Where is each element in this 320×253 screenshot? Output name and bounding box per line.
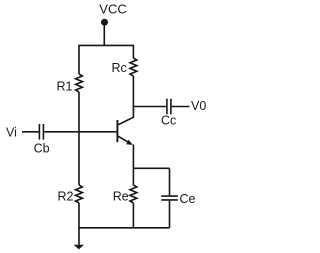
svg-text:VCC: VCC	[99, 2, 126, 17]
resistor Rc	[130, 58, 137, 76]
wire collector junction to Cc	[133, 106, 166, 108]
wire Cb to base	[44, 131, 116, 133]
wire top rail with corner drops	[79, 45, 133, 74]
capacitor Cc	[166, 99, 168, 115]
wire left bottom + bottom rail	[79, 203, 170, 228]
wire emitter junction to Re	[132, 168, 134, 185]
wire emitter down to junction	[132, 145, 134, 169]
svg-text:Vi: Vi	[6, 126, 17, 140]
svg-text:Cb: Cb	[34, 141, 50, 155]
wire Rc to collector junction	[132, 76, 134, 107]
svg-text:Rc: Rc	[112, 61, 127, 75]
wire Cc to V0	[172, 106, 190, 108]
wire Vi lead	[22, 131, 39, 133]
node VCC dot	[101, 19, 108, 26]
transistor Q1 base bar	[116, 120, 118, 142]
svg-text:Cc: Cc	[161, 113, 176, 127]
transistor Q1 emitter with arrow	[118, 136, 130, 143]
wire Ce branch down	[169, 168, 171, 195]
svg-text:Ce: Ce	[180, 192, 196, 206]
wire Ce to bottom rail	[169, 201, 171, 228]
svg-text:Re: Re	[113, 190, 129, 204]
svg-text:R2: R2	[58, 190, 74, 204]
wire Re to bottom rail	[132, 203, 134, 228]
wire left vertical R1 to R2	[78, 92, 80, 185]
resistor R1	[76, 74, 83, 92]
capacitor Ce	[161, 195, 178, 197]
wire VCC stem	[103, 23, 105, 45]
resistor R2	[76, 185, 83, 203]
svg-text:V0: V0	[191, 99, 206, 113]
ground	[78, 228, 80, 245]
svg-text:R1: R1	[57, 80, 73, 94]
capacitor Cb	[38, 124, 40, 140]
resistor Re	[130, 185, 137, 203]
wire emitter junction branch to Ce	[133, 167, 169, 169]
transistor Q1 collector	[118, 107, 133, 125]
